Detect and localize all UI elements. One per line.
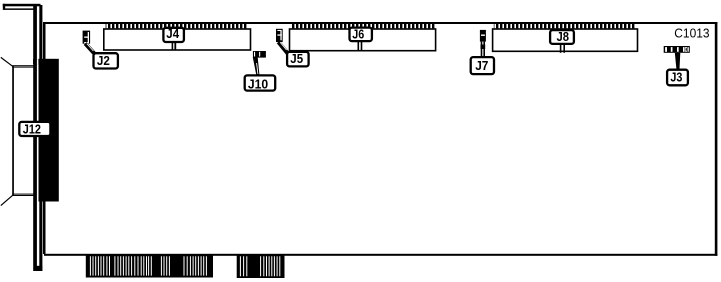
label J4 (163, 28, 184, 42)
svg-text:J10: J10 (248, 76, 268, 91)
connector J8 teeth (494, 24, 636, 29)
board bottom edge (44, 254, 717, 256)
board top edge (44, 22, 717, 24)
leader J8 (560, 45, 562, 53)
bracket right bar (39, 5, 42, 271)
svg-text:J5: J5 (290, 51, 303, 66)
svg-text:J12: J12 (23, 122, 41, 137)
edge connector fingers block B (237, 254, 285, 278)
jumper J2 (83, 31, 91, 44)
board left edge (43, 22, 46, 254)
connector J4 (104, 29, 251, 50)
label J8 (550, 30, 574, 44)
label J6 (350, 28, 372, 41)
tick line bottom (1, 195, 13, 205)
jumper J7 (480, 30, 486, 42)
svg-text:J8: J8 (557, 29, 570, 44)
header J3 (664, 46, 690, 53)
label J7 (471, 57, 494, 74)
svg-text:J7: J7 (475, 58, 488, 73)
svg-text:C1013: C1013 (674, 26, 709, 41)
bracket left bar (33, 6, 37, 271)
leader J10 (253, 57, 260, 74)
tick line top (1, 57, 13, 66)
connector J8 (493, 29, 638, 51)
label J12 (19, 122, 50, 136)
leader J5 (278, 42, 288, 54)
svg-text:J2: J2 (97, 53, 110, 68)
leader J4 (172, 43, 174, 50)
leader J2 (85, 44, 94, 54)
jumper J10 (253, 51, 266, 58)
leader J3 (675, 53, 681, 69)
connector J6 (290, 29, 436, 51)
connector J12 body block (39, 59, 59, 202)
jumper J5 (276, 29, 283, 42)
leader J6 (358, 42, 360, 52)
label J10 (245, 75, 276, 90)
bracket bottom joint (34, 266, 43, 271)
connector J6 teeth (292, 24, 436, 29)
leader J7 (481, 42, 483, 57)
svg-text:J4: J4 (166, 26, 180, 41)
connector J4 teeth (106, 24, 247, 29)
edge connector fingers block A (86, 254, 213, 278)
board right edge (715, 22, 718, 256)
svg-text:J6: J6 (352, 27, 364, 42)
label J5 (287, 52, 309, 67)
svg-text:J3: J3 (670, 70, 682, 85)
label J3 (667, 70, 688, 86)
label J2 (94, 53, 118, 68)
connector J12 mating face outline (12, 66, 14, 196)
bracket top tab (3, 4, 41, 7)
